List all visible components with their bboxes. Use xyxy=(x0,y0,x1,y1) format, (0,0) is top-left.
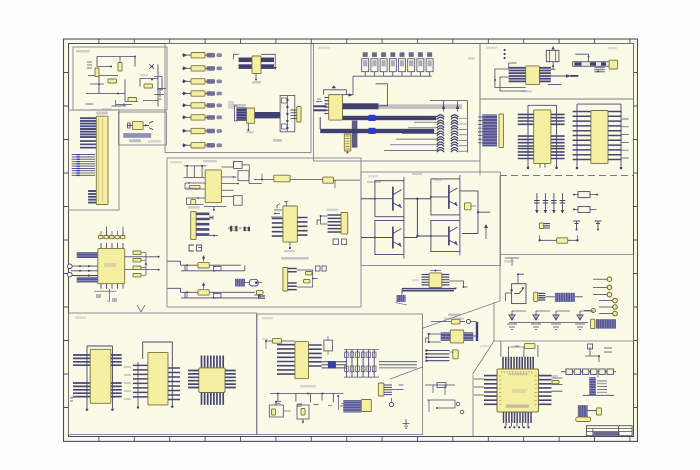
connector J6 xyxy=(453,350,458,359)
DIP U11 body xyxy=(148,352,168,405)
QFP U12 right pins xyxy=(225,371,236,388)
connector J3 body xyxy=(499,114,504,148)
connector J9 pins xyxy=(288,269,297,290)
block outline: power box xyxy=(390,302,494,379)
PS1 input loop xyxy=(426,333,441,343)
R26 stub xyxy=(266,339,294,349)
connector J16 xyxy=(589,377,596,395)
QFP U12 left pins xyxy=(188,371,199,388)
IC U2 right bus xyxy=(261,58,274,69)
top marker xyxy=(137,305,145,312)
connector J13 body xyxy=(378,383,384,396)
capacitor C2 xyxy=(543,193,549,214)
QFP top long pins xyxy=(501,342,538,357)
U5 bottom stubs xyxy=(540,164,545,168)
J12 wires xyxy=(337,395,343,410)
connector J3 pin block xyxy=(482,114,497,146)
DIP U6 left pins xyxy=(573,112,591,160)
DIP U5 rail wires xyxy=(527,105,558,169)
DIP U6 right pins xyxy=(608,112,622,160)
block outline: right DIP box xyxy=(480,99,634,176)
array right stubs xyxy=(459,119,467,152)
IC U2 body xyxy=(252,56,261,74)
U11 far stubs xyxy=(124,367,131,399)
DIP U11 rails xyxy=(143,342,174,408)
clock circuit xyxy=(585,344,612,362)
U8 stubs xyxy=(284,202,295,253)
power labels xyxy=(444,314,464,320)
resistor R23 chain xyxy=(431,321,465,323)
connector J1 body xyxy=(96,116,108,204)
block outline: resistor column box xyxy=(165,44,311,153)
connector J1 mid pins xyxy=(80,141,96,148)
DIP switch S6 xyxy=(408,52,415,76)
inductor array L1 xyxy=(437,115,444,152)
MCU bus A ghost xyxy=(379,104,463,109)
resistor R13 xyxy=(182,91,222,96)
series wire to edge xyxy=(254,174,360,189)
DIP U5 left pins xyxy=(518,114,534,158)
QFP U12 bottom pins xyxy=(202,393,224,405)
connector J11 xyxy=(397,295,406,302)
connector J4 body xyxy=(534,292,538,301)
DIP U5 body xyxy=(534,110,551,164)
J9 loop wires xyxy=(297,270,318,287)
DIP switch S5 xyxy=(399,52,406,76)
termination 2 end parts xyxy=(254,290,265,298)
block outline: left connector box xyxy=(69,110,120,210)
U13 bottom wires xyxy=(94,289,117,302)
QFP inner pin ticks xyxy=(499,371,537,405)
block outline: bottom-left box xyxy=(69,313,257,435)
block outline: middle box xyxy=(167,158,361,307)
connector J5 block xyxy=(591,319,595,328)
U13 left bus B xyxy=(77,277,98,283)
QFP U14 right pins xyxy=(539,376,552,405)
IC U4 body xyxy=(526,66,540,85)
resistor R14 xyxy=(182,103,222,108)
misc wire xyxy=(515,346,558,376)
crystal pair glyphs xyxy=(228,226,250,232)
clock box wires xyxy=(504,258,519,266)
resistor R30 xyxy=(189,185,200,188)
ICA label xyxy=(203,160,217,162)
U8 top-left wires xyxy=(271,204,282,218)
QFP U13 top stubs xyxy=(101,243,123,249)
QFP U13 top resistors xyxy=(99,236,125,239)
power indicator dots xyxy=(504,49,506,59)
U4 output arrow wire xyxy=(548,74,578,84)
MCU U3 body xyxy=(329,95,343,120)
J9 resistors xyxy=(304,272,313,283)
resistor R24 xyxy=(274,175,290,182)
relay K2 xyxy=(512,284,526,304)
resistor network RN1 xyxy=(346,349,374,377)
header bus drop xyxy=(352,121,358,148)
resistor R22 chain xyxy=(539,239,579,241)
resistor array RN2 xyxy=(561,371,616,373)
J1 blue net nodes xyxy=(77,154,80,176)
connector J12 body xyxy=(361,400,371,412)
terminal X2 xyxy=(596,408,601,415)
U13 pull resistors xyxy=(133,251,147,277)
transistor Q4 xyxy=(374,217,404,259)
jumper pair JP2 xyxy=(333,239,347,245)
T1 output hook xyxy=(450,281,468,288)
IC U9 right pins xyxy=(309,345,322,366)
QFP top rail xyxy=(508,346,530,348)
U7 right transistors xyxy=(234,161,249,205)
IC U4 right pins xyxy=(539,68,551,82)
block outline: transistor box xyxy=(361,172,501,266)
fuse F1 xyxy=(573,62,611,67)
connector J7 pins xyxy=(196,214,209,235)
resistor R16 xyxy=(182,128,222,133)
DIP U10 right pins xyxy=(111,355,122,397)
label smudge xyxy=(76,50,148,110)
resistor R15 xyxy=(182,115,222,120)
bias circuit 2 xyxy=(297,405,309,423)
QFP U12 top pins xyxy=(202,356,224,368)
fuse lower comb xyxy=(594,68,604,73)
U7 right wires xyxy=(221,161,239,196)
bus junction nodes xyxy=(369,115,376,134)
resistor R21 xyxy=(578,206,590,212)
title block xyxy=(586,426,632,436)
QFP U13 body xyxy=(98,249,125,284)
arrow wire xyxy=(484,224,488,239)
transistor Q1 and grounds xyxy=(122,64,164,107)
resistor R17 xyxy=(182,143,222,148)
transformer T1 body xyxy=(429,273,442,288)
connector J8 pins xyxy=(328,215,341,232)
IC U8 body xyxy=(283,206,297,242)
output bundle xyxy=(426,351,449,361)
J7 label xyxy=(188,206,200,209)
connector J9 body xyxy=(283,268,288,292)
transistor Q5 xyxy=(430,217,460,256)
fan-out wires xyxy=(384,117,438,151)
MCU bus B xyxy=(343,116,437,120)
relay wires xyxy=(551,62,555,69)
connector J1 thin pins xyxy=(72,155,95,176)
load capacitor bank xyxy=(280,96,295,132)
resistor R12 xyxy=(182,79,222,84)
crystal module G1 xyxy=(578,405,588,418)
DIP U10 body xyxy=(90,349,111,403)
U13 signal wires xyxy=(71,265,98,277)
crystal left pin block xyxy=(236,107,246,120)
aux circuit 1 xyxy=(425,383,455,396)
J7 top glyphs xyxy=(209,216,218,237)
block outline: bias network box xyxy=(73,47,167,110)
U7 left label xyxy=(185,187,196,190)
resistor R26 xyxy=(272,339,281,344)
bus A riser wire xyxy=(376,84,388,106)
capacitor C7 xyxy=(539,223,543,229)
diode circuit D6 xyxy=(531,311,550,330)
DIP U5 right pins xyxy=(551,114,565,158)
labels B12 xyxy=(262,338,316,387)
U13 left bus A xyxy=(77,252,98,258)
crystal C left wires xyxy=(233,104,246,121)
test points TP1-TP6 xyxy=(593,277,617,316)
resistor R20 xyxy=(578,192,590,198)
U7 bottom rail xyxy=(204,206,227,211)
test point TP7 xyxy=(584,308,595,312)
bias circuit 1 xyxy=(269,401,291,417)
U13 top wires xyxy=(101,227,123,236)
header wires xyxy=(347,119,362,153)
block outline: oscillator box xyxy=(119,112,167,145)
J8 hook wires xyxy=(317,215,328,225)
U13 label xyxy=(104,263,116,267)
array L1 feed arrow xyxy=(442,101,445,112)
switch bus wire xyxy=(365,75,432,77)
DIP switch S8 xyxy=(426,52,433,76)
ground symbol xyxy=(403,419,410,428)
socket glyph xyxy=(189,245,202,251)
J16 wires xyxy=(583,375,614,395)
capacitor C4 xyxy=(560,193,566,214)
capacitor C1 xyxy=(534,193,540,214)
U6 right long stubs xyxy=(622,119,629,158)
DIP switch S7 xyxy=(417,52,424,76)
connector J7 body xyxy=(191,211,196,239)
glyph pair right xyxy=(315,266,326,271)
xtal bottom stub and label xyxy=(246,123,282,141)
row link wire xyxy=(509,322,588,324)
U7 left wires xyxy=(185,182,205,190)
connector J1 body lines xyxy=(98,118,102,202)
U7 far-right wires xyxy=(242,165,262,184)
border zone tick marks xyxy=(64,39,638,441)
decoup box xyxy=(324,340,333,351)
bias resistors R1-R5 xyxy=(95,63,153,102)
bias stub marks xyxy=(86,62,122,106)
schematic sheet background xyxy=(64,39,638,441)
transformer T1 right pins xyxy=(442,275,450,285)
DIP U11 right pins xyxy=(168,368,180,400)
capacitor C3 xyxy=(551,193,557,214)
connector J1 lower pin block xyxy=(88,191,97,203)
block outline: clock box xyxy=(422,255,634,375)
terminal X1 xyxy=(609,60,618,69)
connector J12 block xyxy=(343,400,361,413)
transistor Q2 xyxy=(374,177,404,221)
DIP U10 rails xyxy=(86,346,114,411)
DIP switch S1 xyxy=(362,52,369,76)
MCU U3 left pins xyxy=(324,97,329,115)
IC U9 body xyxy=(295,342,309,379)
QFP U14 left pins xyxy=(484,376,497,405)
box label xyxy=(468,57,475,60)
array L2 feed arrow xyxy=(456,101,459,112)
connector J10 xyxy=(465,203,472,210)
MCU bus C xyxy=(320,117,434,133)
MCU left bus lines xyxy=(314,99,327,111)
QFP U14 body xyxy=(497,369,539,412)
diode circuit D7 xyxy=(551,311,570,330)
DIP U6 body xyxy=(591,111,608,164)
DC-DC module PS1 xyxy=(450,330,463,343)
T1 rail wires xyxy=(402,289,456,291)
resistor R10 xyxy=(182,53,222,58)
diode D10 pair xyxy=(235,279,262,287)
block outline: capacitor box xyxy=(500,176,634,255)
DIP switch S3 xyxy=(380,52,387,76)
DIP U6 rail wires xyxy=(576,104,623,169)
QFP bottom dots xyxy=(504,426,530,428)
block outline: right DIP box dashed bottom xyxy=(500,175,634,177)
termination network 2 xyxy=(168,282,259,299)
U4 left loop wires xyxy=(494,63,526,91)
transistor link wires xyxy=(361,198,431,238)
resistor R27 xyxy=(525,344,536,349)
collector bus wire xyxy=(460,191,490,234)
block outline: top-right box xyxy=(480,44,634,100)
array top rail xyxy=(430,101,467,153)
relay K1 xyxy=(546,50,559,61)
PS1 output bar xyxy=(473,322,478,341)
transistor Q3 xyxy=(430,175,460,219)
QFP left long wires xyxy=(474,379,484,395)
connector J1 upper pin block xyxy=(80,118,96,137)
xtal connector bar xyxy=(297,107,301,123)
column label xyxy=(228,101,234,109)
J13 wires xyxy=(392,385,404,390)
QFP U14 bottom pins xyxy=(504,412,532,427)
IC U2 wires xyxy=(234,54,277,83)
U10 left stub xyxy=(70,396,77,401)
relay K2 wires xyxy=(506,273,524,301)
block outline: bottom-middle box xyxy=(257,314,423,435)
xtal right comb xyxy=(291,110,297,118)
J4 link wires xyxy=(546,296,583,298)
U7 top-left rail xyxy=(184,165,207,178)
block D label xyxy=(281,257,309,260)
QFP U14 top pins xyxy=(503,357,533,369)
ground rail run xyxy=(270,393,346,407)
T1 top tie xyxy=(430,270,441,272)
block outline: QFP box left edge xyxy=(472,375,474,437)
QFP labels xyxy=(506,346,529,408)
long bus wires right xyxy=(379,362,417,368)
sheet inner border xyxy=(69,44,634,437)
oscillator label strip xyxy=(123,133,161,142)
DIP U11 left pins xyxy=(133,365,148,397)
diode circuit D8 xyxy=(575,311,594,330)
capacitor C10 xyxy=(191,200,196,205)
fuse riser wire xyxy=(575,54,589,62)
J8 label xyxy=(326,209,338,212)
PS1 left pin block xyxy=(441,332,451,341)
IC U9 left pins xyxy=(277,345,295,374)
inductor array L2 xyxy=(451,115,458,152)
switch to MCU wire xyxy=(329,76,408,95)
capacitor C6 xyxy=(595,221,602,231)
MCU top loop xyxy=(323,85,351,96)
connector J1 label xyxy=(96,112,108,115)
label xyxy=(522,90,532,93)
bias network wires xyxy=(86,56,166,107)
crystal Y2 body xyxy=(247,108,255,123)
MCU bus A xyxy=(343,103,379,109)
U7 bottom-left loop xyxy=(186,197,206,204)
bias wires xyxy=(367,174,442,182)
T1 label xyxy=(412,279,419,281)
U13 bottom stubs xyxy=(101,284,123,289)
bus junction xyxy=(328,361,336,368)
indicator LED xyxy=(389,398,393,407)
section title smudges xyxy=(75,47,617,348)
bus wires to RN1 xyxy=(322,362,347,368)
programming header J2 xyxy=(344,134,351,151)
IC U2 left bus xyxy=(239,58,252,69)
DIP switch S4 xyxy=(389,52,396,76)
oscillator wires xyxy=(127,121,153,130)
QFP right wires xyxy=(552,378,563,391)
transformer T1 left pins xyxy=(422,275,430,285)
connector J3 left stubs xyxy=(478,117,482,143)
DIP U10 left pins xyxy=(73,355,90,397)
IC U8 left pins xyxy=(272,219,283,237)
capacitor C5 xyxy=(573,221,580,231)
crystal bus xyxy=(255,112,281,118)
DIP switch S2 xyxy=(371,52,378,76)
QFP U12 body xyxy=(199,368,225,393)
IC U8 right pins xyxy=(297,218,307,236)
connector J4 pin block xyxy=(555,293,575,302)
termination network 1 xyxy=(168,255,245,272)
jack J14/J15 xyxy=(68,264,73,277)
oscillator Y1 body xyxy=(133,121,144,129)
U13 right wires xyxy=(125,256,160,271)
IC U4 left pins xyxy=(509,68,526,82)
resistor R11 xyxy=(182,66,222,71)
block outline: MCU box xyxy=(314,44,481,162)
PS1 right pin block xyxy=(464,332,474,341)
U11 left rail xyxy=(137,362,139,409)
connector J8 body xyxy=(341,213,348,235)
IC U7 body xyxy=(205,170,221,203)
resistor R25 xyxy=(323,177,334,183)
diode circuit D5 xyxy=(507,311,526,330)
aux circuit 2 xyxy=(427,400,464,414)
